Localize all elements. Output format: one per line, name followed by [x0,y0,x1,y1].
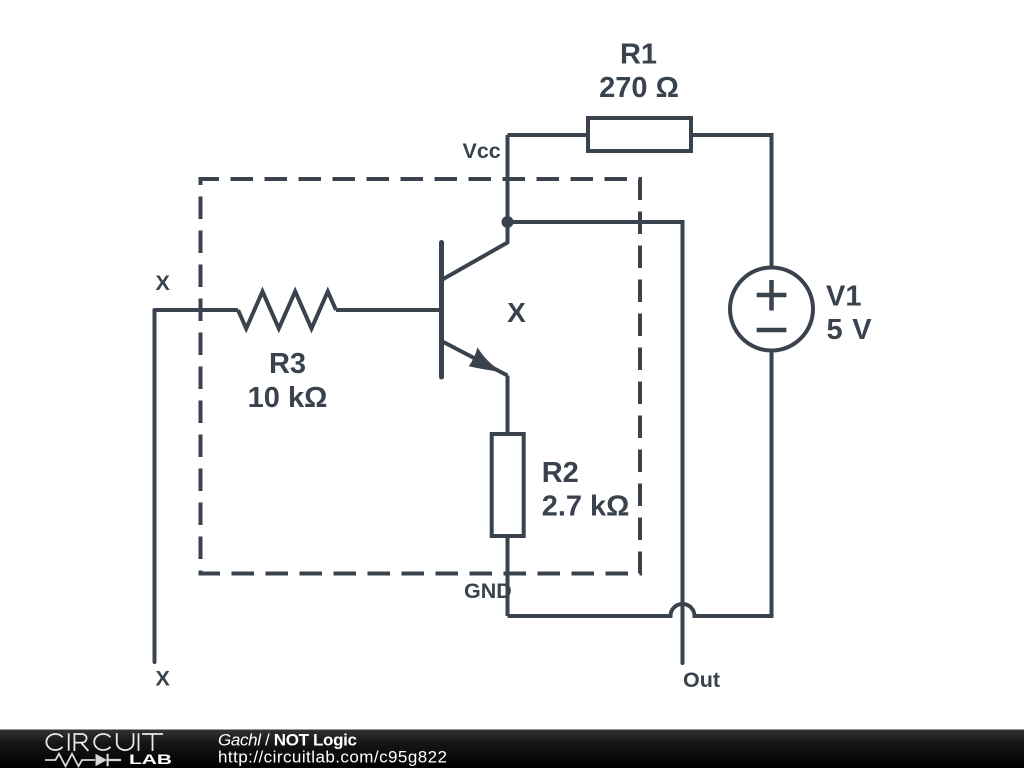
logo CIRCUIT wordmark (thin stroked letters) [46,733,163,751]
svg-text:2.7 kΩ: 2.7 kΩ [542,491,630,523]
svg-text:10 kΩ: 10 kΩ [248,382,328,414]
dashed subcircuit box [201,179,641,574]
svg-text:5 V: 5 V [827,314,873,346]
svg-text:http://circuitlab.com/c95g822: http://circuitlab.com/c95g822 [218,748,447,767]
svg-text:270 Ω: 270 Ω [599,72,679,104]
wire: R3 to base [336,308,440,312]
wire: collector node to Out vertical line [508,222,683,663]
svg-text:GND: GND [464,579,512,603]
voltage source V1 circle [730,268,813,351]
logo resistor squiggle [45,754,95,766]
svg-text:Vcc: Vcc [463,139,501,163]
svg-text:R3: R3 [269,348,306,380]
resistor R3 zigzag [238,292,336,329]
svg-text:X: X [156,271,171,295]
wire: emitter to R2 [506,376,510,435]
footer bar top highlight [0,729,1024,730]
resistor R1 [588,118,691,151]
wire: Vcc rail left segment to R1 [508,133,589,137]
footer bar [0,729,1024,768]
transistor X collector lead [442,222,508,280]
resistor R2 [492,434,524,536]
wire: GND rail with hop over Out, up to V1 bottom [508,353,772,617]
logo diode [96,754,108,766]
voltage source V1 plus sign [757,280,787,311]
transistor X body bar [439,243,444,378]
logo letter C [46,734,62,750]
transistor X emitter lead [442,341,508,376]
svg-text:R1: R1 [620,39,657,71]
svg-text:Out: Out [683,668,720,692]
logo letter C [94,734,110,750]
svg-text:X: X [507,297,526,328]
wire: R1 right to V1 top lead [691,135,772,266]
logo letter R [74,734,88,751]
logo letter T [142,734,163,751]
voltage source V1 minus sign [757,328,787,333]
svg-text:X: X [156,667,171,691]
svg-text:V1: V1 [826,281,861,313]
wire: R2 to GND rail [506,536,510,616]
svg-text:R2: R2 [542,457,579,489]
junction node dot [502,216,514,228]
wire: input x vertical [153,310,157,662]
logo letter I [138,733,140,750]
transistor X emitter arrow [469,347,503,372]
logo letter I [68,733,70,750]
svg-text:LAB: LAB [129,752,172,767]
logo letter U [117,733,134,750]
wire: Vcc drop [506,135,510,222]
wire: input x horizontal to R3 [155,308,239,312]
